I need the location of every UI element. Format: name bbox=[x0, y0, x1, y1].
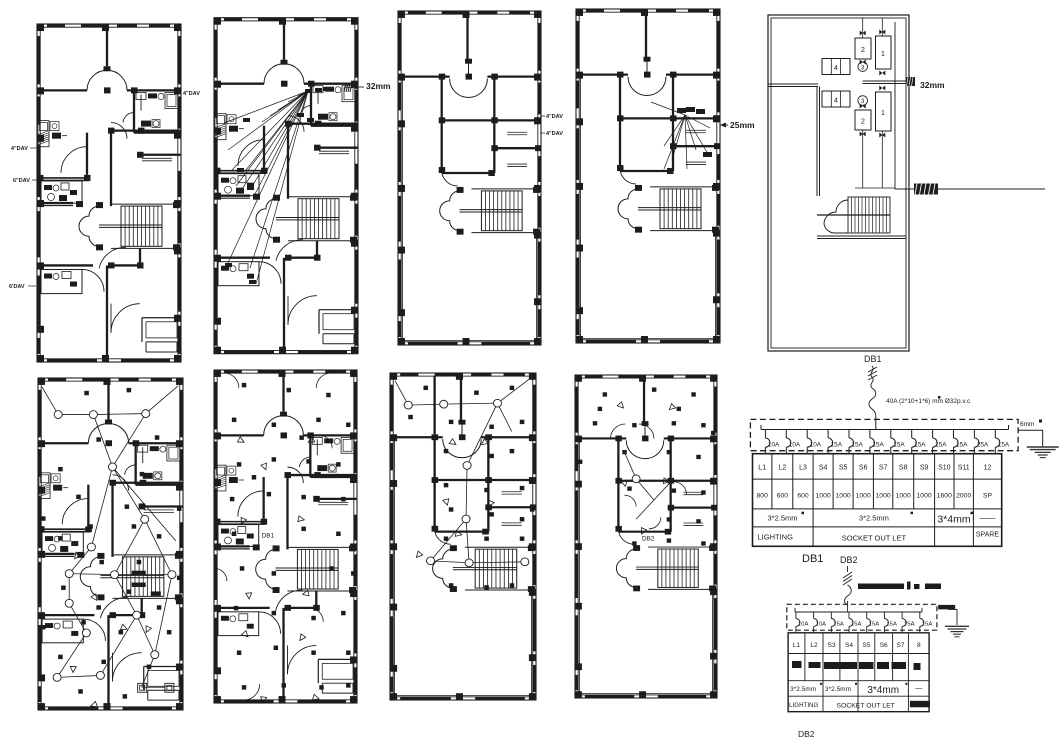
svg-text:2: 2 bbox=[861, 47, 865, 54]
svg-text:3*4mm: 3*4mm bbox=[937, 514, 971, 526]
svg-text:25A: 25A bbox=[904, 622, 915, 628]
svg-text:LIGHTING: LIGHTING bbox=[789, 702, 818, 709]
porch bbox=[143, 667, 145, 691]
staircase bbox=[660, 189, 701, 229]
arrow symbols bbox=[449, 439, 456, 445]
svg-text:15A: 15A bbox=[872, 442, 884, 449]
hall arch opening bbox=[87, 70, 107, 90]
wall junction blocks bbox=[109, 480, 116, 486]
interior walls bbox=[37, 89, 87, 91]
hall arch opening bbox=[88, 423, 108, 443]
bath top-right bbox=[309, 435, 311, 477]
DB2 feeder blocks bbox=[858, 584, 904, 590]
bath lower-left bbox=[42, 619, 83, 643]
door arc mid-left bbox=[61, 147, 87, 173]
wing left wall bbox=[619, 75, 621, 168]
breaker 10A bbox=[785, 430, 787, 439]
entry door bbox=[113, 653, 142, 682]
outer wall double line bbox=[38, 378, 183, 710]
svg-text:S11: S11 bbox=[958, 465, 970, 472]
svg-text:10A: 10A bbox=[768, 442, 780, 449]
svg-text:S8: S8 bbox=[899, 465, 908, 472]
wall dark segments bbox=[585, 375, 603, 378]
staircase bbox=[658, 549, 698, 587]
breaker 10A bbox=[764, 430, 766, 439]
ceiling light points bbox=[632, 475, 640, 483]
DB2 breaker 10A bbox=[813, 612, 815, 619]
porch bbox=[318, 310, 320, 334]
svg-text:S3: S3 bbox=[828, 642, 836, 649]
hall walls bbox=[87, 485, 89, 527]
svg-text:800: 800 bbox=[757, 493, 769, 500]
svg-text:1000: 1000 bbox=[917, 493, 932, 500]
terrace inner line bbox=[581, 75, 716, 339]
floor plan 8 (electrical layout terrace) bbox=[575, 375, 717, 698]
svg-text:4: 4 bbox=[834, 98, 838, 105]
lobby door bbox=[100, 597, 127, 618]
stair top wall bbox=[287, 546, 356, 548]
interior walls bbox=[214, 434, 264, 436]
meter circle 3 lower bbox=[858, 96, 868, 106]
DB2 breaker 15A bbox=[866, 612, 868, 619]
stair wall blocks bbox=[633, 545, 640, 551]
lobby scalloped wall bbox=[256, 199, 276, 239]
entry door bbox=[288, 296, 317, 325]
stair top wall bbox=[465, 546, 535, 548]
svg-text:3*2.5mm: 3*2.5mm bbox=[859, 514, 889, 523]
svg-text:15A: 15A bbox=[852, 442, 864, 449]
svg-text:L2: L2 bbox=[810, 642, 818, 649]
ceiling light points bbox=[404, 401, 412, 409]
kitchen counter bbox=[215, 465, 226, 491]
wiring web bbox=[636, 479, 654, 500]
svg-text:S4: S4 bbox=[819, 465, 828, 472]
bath top-right bbox=[135, 443, 137, 485]
svg-text:15A: 15A bbox=[922, 622, 933, 628]
door arc bbox=[82, 269, 104, 291]
door arc bbox=[123, 113, 134, 123]
bath lower-left bbox=[218, 612, 259, 636]
floor plan 5 (electrical layout ground floor) bbox=[38, 378, 183, 710]
wiring web bbox=[395, 381, 408, 405]
arrow symbols bbox=[75, 552, 81, 559]
stair wall blocks bbox=[97, 553, 104, 559]
door arc bedroom bbox=[111, 123, 127, 139]
door arc bedroom bbox=[113, 475, 129, 491]
outer wall double line bbox=[214, 18, 358, 354]
svg-text:SP: SP bbox=[983, 493, 993, 500]
svg-text:15A: 15A bbox=[886, 622, 897, 628]
svg-text:32mm: 32mm bbox=[920, 80, 945, 90]
wall dark segments bbox=[400, 373, 418, 376]
breaker 15A bbox=[869, 430, 871, 439]
bath mid-left bbox=[38, 528, 90, 530]
svg-text:3*4mm: 3*4mm bbox=[867, 685, 899, 696]
terrace inner line bbox=[579, 438, 712, 693]
stair wall blocks bbox=[635, 185, 642, 191]
door arc bbox=[125, 465, 136, 475]
svg-text:DB1: DB1 bbox=[864, 354, 882, 364]
riser interior walls bbox=[768, 83, 818, 85]
svg-text:40A (2*10+1*6) mm Ø32p.v.c: 40A (2*10+1*6) mm Ø32p.v.c bbox=[886, 398, 971, 405]
DB2 breaker 15A bbox=[883, 612, 885, 619]
porch socket boxes bbox=[138, 683, 147, 692]
bath mid-left bbox=[214, 170, 266, 172]
svg-text:——: —— bbox=[980, 514, 996, 523]
svg-text:1000: 1000 bbox=[876, 493, 891, 500]
stair wall blocks bbox=[273, 545, 280, 551]
bowtie connectors bbox=[860, 31, 866, 36]
DB1 load schedule table bbox=[753, 454, 1002, 547]
bath mid-left bbox=[214, 521, 266, 523]
DB2 breaker 15A bbox=[830, 612, 832, 619]
svg-text:10A: 10A bbox=[810, 442, 822, 449]
DB2 breaker 10A bbox=[795, 612, 797, 619]
door arc bbox=[259, 612, 281, 634]
entry door bbox=[111, 304, 140, 333]
svg-text:8: 8 bbox=[917, 642, 921, 649]
stair top wall bbox=[288, 196, 357, 198]
bath lower-left bbox=[41, 269, 82, 293]
svg-text:S6: S6 bbox=[880, 642, 888, 649]
kitchen counter bbox=[39, 473, 50, 499]
stair wall blocks bbox=[457, 187, 464, 193]
column blocks bbox=[214, 18, 221, 25]
floor plan 1 (ground floor plumbing) bbox=[37, 24, 181, 362]
extra door arcs bbox=[224, 373, 239, 388]
top band wall bbox=[390, 436, 443, 438]
breaker 15A bbox=[827, 430, 829, 439]
ceiling light points bbox=[54, 411, 62, 419]
svg-text:1: 1 bbox=[881, 110, 885, 117]
lobby scalloped wall bbox=[79, 206, 99, 246]
stair top wall bbox=[113, 554, 182, 556]
stair wall blocks bbox=[96, 202, 103, 208]
bath top-right bbox=[133, 90, 135, 132]
wing left wall bbox=[617, 438, 619, 528]
breaker 15A bbox=[890, 430, 892, 439]
breaker 15A bbox=[911, 430, 913, 439]
svg-text:3*2.5mm: 3*2.5mm bbox=[825, 686, 851, 693]
column blocks bbox=[398, 11, 405, 18]
svg-text:15A: 15A bbox=[914, 442, 926, 449]
hall arch opening bbox=[264, 64, 284, 84]
DB1 bus bar bbox=[761, 429, 1009, 431]
lobby door bbox=[276, 240, 303, 261]
lobby scalloped wall bbox=[440, 191, 460, 231]
svg-text:S10: S10 bbox=[938, 465, 951, 472]
breaker 15A bbox=[848, 430, 850, 439]
riser stair bbox=[848, 197, 890, 233]
svg-text:L1: L1 bbox=[793, 642, 801, 649]
DB2 drop squiggle bbox=[847, 566, 849, 572]
earth connection DB1 bbox=[1018, 430, 1043, 446]
wall junction blocks bbox=[285, 472, 291, 478]
wall junction blocks bbox=[285, 121, 292, 127]
conduit fan lines bbox=[224, 91, 308, 123]
hall walls bbox=[86, 133, 88, 175]
stair conduit blobs bbox=[132, 571, 146, 575]
wing door arcs bbox=[610, 424, 625, 438]
svg-text:32mm: 32mm bbox=[366, 81, 391, 91]
svg-text:LIGHTING: LIGHTING bbox=[758, 533, 794, 542]
svg-text:600: 600 bbox=[797, 493, 809, 500]
bath top-right bbox=[310, 84, 312, 126]
riser vertical feeders bbox=[862, 18, 864, 38]
meter box 4 upper bbox=[822, 59, 850, 75]
floor plan 6 (electrical layout first floor) bbox=[214, 370, 357, 703]
door arc bedroom bbox=[287, 467, 303, 483]
svg-text:4"DAV: 4"DAV bbox=[546, 131, 563, 137]
stair top wall bbox=[471, 188, 540, 190]
floor plan 3 (second floor) bbox=[398, 11, 542, 345]
lobby scalloped wall bbox=[433, 549, 453, 588]
svg-text:25mm: 25mm bbox=[730, 120, 755, 130]
DB2 breaker 25A bbox=[901, 612, 903, 619]
svg-text:600: 600 bbox=[777, 493, 789, 500]
door arc bbox=[300, 106, 311, 116]
door arc mid-left bbox=[238, 491, 264, 517]
door arc mid-left bbox=[62, 499, 88, 525]
column blocks bbox=[390, 373, 397, 380]
outer wall double line bbox=[575, 375, 717, 698]
DB2 breaker 15A bbox=[919, 612, 921, 619]
riser diagram building outline bbox=[768, 15, 909, 351]
staircase bbox=[121, 206, 162, 246]
porch bbox=[317, 659, 319, 683]
svg-text:S9: S9 bbox=[920, 465, 929, 472]
wall dark segments bbox=[48, 378, 66, 381]
svg-text:S6: S6 bbox=[859, 465, 868, 472]
svg-text:SPARE: SPARE bbox=[976, 532, 1000, 539]
floor plan 7 (electrical layout second floor) bbox=[390, 373, 537, 700]
wall dark segments bbox=[224, 18, 242, 21]
svg-text:4"DAV: 4"DAV bbox=[11, 146, 28, 152]
top band wall bbox=[398, 75, 450, 77]
hall walls bbox=[263, 126, 265, 168]
svg-text:6"DAV: 6"DAV bbox=[13, 178, 30, 184]
wing rooms bbox=[670, 438, 672, 531]
svg-text:3*2.5mm: 3*2.5mm bbox=[790, 686, 816, 693]
top band wall bbox=[575, 437, 626, 439]
column blocks bbox=[575, 375, 582, 382]
hall arch room bbox=[443, 439, 482, 457]
lower walls bbox=[214, 607, 270, 609]
wall junction blocks bbox=[617, 72, 624, 78]
svg-text:SOCKET OUT LET: SOCKET OUT LET bbox=[837, 702, 895, 709]
switch/socket blocks bbox=[242, 383, 246, 387]
lobby scalloped wall bbox=[80, 557, 100, 597]
svg-text:1600: 1600 bbox=[937, 493, 952, 500]
svg-text:15A: 15A bbox=[998, 442, 1010, 449]
meter box 2 upper bbox=[855, 38, 871, 59]
svg-text:1: 1 bbox=[881, 51, 885, 58]
wing rooms bbox=[487, 437, 489, 531]
breaker 10A bbox=[806, 430, 808, 439]
column blocks bbox=[576, 9, 583, 16]
interior walls bbox=[38, 442, 88, 444]
svg-text:L2: L2 bbox=[779, 465, 787, 472]
svg-text:DB2: DB2 bbox=[642, 535, 655, 542]
DB1 breaker panel dashed enclosure bbox=[750, 419, 1018, 450]
wing rooms bbox=[672, 75, 674, 171]
hall arch room bbox=[626, 440, 663, 458]
meter box 2 lower bbox=[855, 110, 871, 130]
switch/socket blocks bbox=[423, 386, 428, 390]
svg-text:3*2.5mm: 3*2.5mm bbox=[767, 514, 797, 523]
32mm conduit to riser bbox=[863, 80, 906, 82]
svg-text:12: 12 bbox=[984, 465, 992, 472]
svg-text:—: — bbox=[915, 685, 922, 692]
lower walls bbox=[37, 264, 93, 266]
svg-text:10A: 10A bbox=[789, 442, 801, 449]
DB2 bus bar bbox=[795, 611, 922, 613]
svg-text:4: 4 bbox=[834, 65, 838, 72]
table grid columns bbox=[771, 454, 773, 509]
svg-text:DB2: DB2 bbox=[798, 729, 815, 739]
DB2 earth feeder block bbox=[938, 605, 955, 610]
svg-text:15A: 15A bbox=[956, 442, 968, 449]
svg-text:15A: 15A bbox=[869, 622, 880, 628]
column blocks bbox=[37, 24, 44, 31]
porch bbox=[141, 318, 143, 342]
junction blocks plan4 bbox=[677, 108, 686, 113]
lobby scalloped wall bbox=[618, 189, 638, 229]
wall junction blocks bbox=[432, 434, 439, 440]
svg-text:1000: 1000 bbox=[856, 493, 871, 500]
svg-text:15A: 15A bbox=[833, 622, 844, 628]
stair wall blocks bbox=[450, 545, 457, 551]
wiring web bbox=[42, 387, 58, 415]
hall arch opening bbox=[264, 416, 284, 436]
svg-text:1000: 1000 bbox=[836, 493, 851, 500]
earth symbol DB1 bbox=[1027, 446, 1059, 448]
fan junction blocks bbox=[305, 89, 312, 93]
stair top wall bbox=[650, 186, 719, 188]
hall arch room bbox=[628, 77, 666, 96]
entry door bbox=[287, 646, 316, 675]
lobby scalloped wall bbox=[256, 549, 276, 589]
breaker 15A bbox=[953, 430, 955, 439]
meter box 4 lower bbox=[822, 91, 850, 107]
breaker 25A bbox=[973, 430, 975, 439]
svg-text:S5: S5 bbox=[862, 642, 870, 649]
kitchen counter bbox=[215, 114, 226, 140]
svg-text:2000: 2000 bbox=[956, 493, 971, 500]
door arc bbox=[259, 262, 281, 284]
floor plan 2 (first floor with conduit fan) bbox=[214, 18, 358, 354]
svg-text:2: 2 bbox=[861, 119, 865, 126]
wall junction blocks bbox=[108, 128, 115, 134]
staircase bbox=[297, 549, 338, 589]
DB1 drop squiggle bbox=[871, 366, 873, 388]
switch/socket blocks bbox=[84, 391, 89, 395]
lower walls bbox=[38, 614, 94, 616]
wing rooms bbox=[493, 77, 495, 173]
meter circle 3 upper bbox=[858, 62, 868, 72]
service feed line bbox=[895, 188, 1045, 190]
door arc bbox=[442, 170, 458, 186]
arrow symbols bbox=[237, 437, 244, 442]
wall dark segments bbox=[224, 370, 242, 373]
svg-text:1000: 1000 bbox=[816, 493, 831, 500]
wall dark segments bbox=[586, 9, 604, 12]
DB2 breaker 15A bbox=[848, 612, 850, 619]
terrace inner line bbox=[402, 77, 536, 341]
svg-text:4"DAV: 4"DAV bbox=[546, 114, 563, 120]
DB2 load schedule table bbox=[788, 633, 929, 712]
hall walls bbox=[263, 477, 265, 519]
table grid rows bbox=[753, 478, 1002, 480]
svg-text:DB1: DB1 bbox=[262, 533, 275, 540]
column blocks bbox=[214, 370, 221, 377]
wing left wall bbox=[433, 437, 435, 528]
stair top wall bbox=[648, 546, 716, 548]
breaker 15A bbox=[932, 430, 934, 439]
top band wall bbox=[576, 73, 628, 75]
arrow symbols bbox=[617, 402, 623, 408]
outer wall double line bbox=[576, 9, 720, 343]
staircase bbox=[475, 549, 517, 588]
svg-text:1000: 1000 bbox=[896, 493, 911, 500]
DB2 value blobs bbox=[792, 661, 802, 668]
wall dark segments bbox=[408, 11, 426, 14]
breaker 15A bbox=[994, 430, 996, 439]
floor plan 4 (terrace floor with conduit) bbox=[576, 9, 721, 343]
svg-text:S4: S4 bbox=[845, 642, 853, 649]
switch/socket blocks bbox=[603, 392, 607, 396]
column blocks bbox=[38, 378, 45, 385]
earth connection DB2 bbox=[948, 609, 957, 625]
wall dark segments bbox=[47, 24, 65, 27]
outer wall double line bbox=[390, 373, 536, 700]
door arc bbox=[83, 619, 105, 641]
svg-text:L1: L1 bbox=[758, 465, 766, 472]
terrace inner line bbox=[395, 437, 532, 695]
lower walls bbox=[214, 257, 270, 259]
bath mid-left bbox=[37, 177, 89, 179]
door arc mid-left bbox=[238, 140, 264, 166]
staircase bbox=[298, 199, 339, 239]
bath lower-left bbox=[218, 262, 259, 286]
DB2 breaker panel dashed enclosure bbox=[787, 604, 937, 630]
svg-text:S5: S5 bbox=[839, 465, 848, 472]
svg-text:S7: S7 bbox=[897, 642, 905, 649]
door arc bbox=[299, 457, 310, 467]
stair wall blocks bbox=[273, 195, 280, 201]
outer wall double line bbox=[398, 11, 541, 345]
conduit lines plan4 bbox=[651, 102, 685, 115]
stair top wall bbox=[111, 203, 180, 205]
svg-text:S7: S7 bbox=[879, 465, 888, 472]
svg-text:15A: 15A bbox=[893, 442, 905, 449]
staircase bbox=[123, 557, 164, 597]
svg-text:6'DAV: 6'DAV bbox=[9, 284, 25, 290]
door arc bbox=[618, 529, 634, 544]
lobby door bbox=[99, 247, 126, 268]
lobby scalloped wall bbox=[616, 549, 636, 587]
door arc bbox=[435, 529, 451, 545]
svg-text:L3: L3 bbox=[799, 465, 807, 472]
svg-text:6mm: 6mm bbox=[1020, 421, 1034, 428]
svg-text:SOCKET OUT LET: SOCKET OUT LET bbox=[842, 534, 907, 543]
interior walls bbox=[214, 83, 264, 85]
hall arch room bbox=[450, 79, 488, 98]
meter box 1 lower bbox=[876, 92, 892, 131]
svg-text:DB1: DB1 bbox=[802, 553, 823, 565]
door arc bedroom bbox=[288, 116, 304, 132]
band partition bbox=[433, 376, 435, 434]
